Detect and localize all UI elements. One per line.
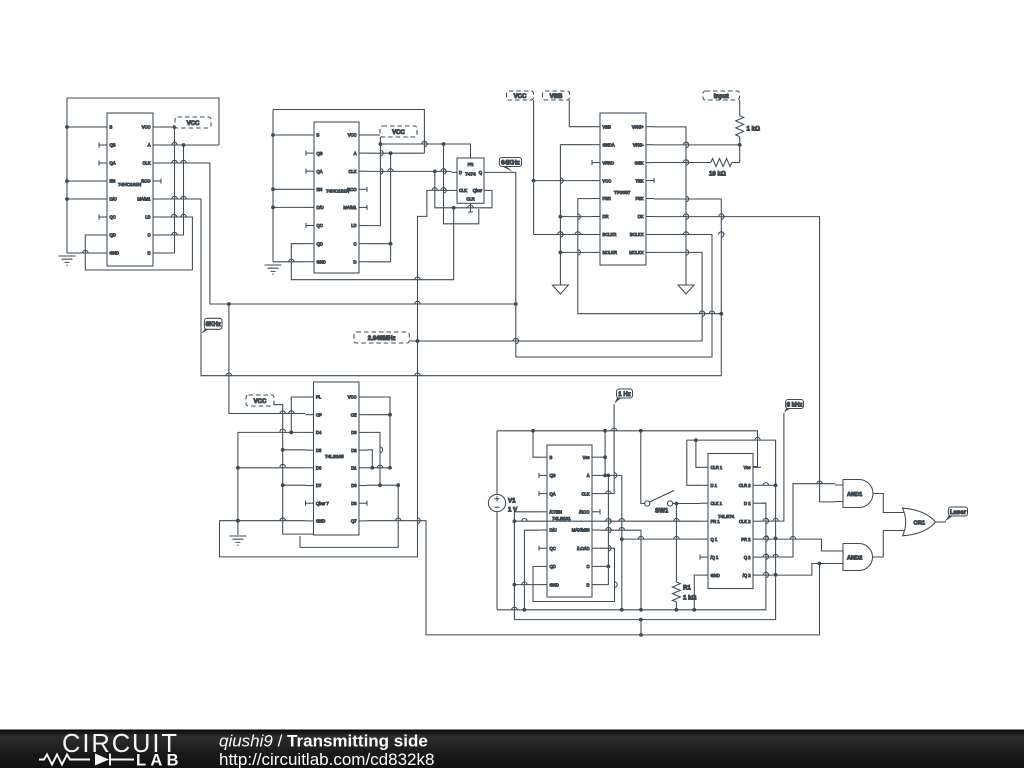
svg-text:GND: GND — [317, 259, 326, 264]
svg-text:C: C — [354, 241, 357, 246]
svg-text:GND: GND — [711, 573, 720, 578]
svg-text:Vcc: Vcc — [744, 465, 751, 470]
svg-text:CLR 2: CLR 2 — [739, 483, 751, 488]
svg-text:QD: QD — [110, 233, 116, 238]
svg-text:QB: QB — [110, 143, 116, 148]
svg-text:QA: QA — [550, 491, 556, 496]
net flag Input — [703, 91, 740, 100]
svg-text:/RCO: /RCO — [579, 510, 590, 515]
wire U7.CLK2 to 8 kHz flag — [761, 413, 784, 521]
svg-text:LD: LD — [351, 223, 356, 228]
wire U7./Q2 to AND2 lower — [761, 564, 835, 576]
wire U5.Q7 to bottom rail and AND2 riser — [367, 521, 820, 635]
svg-text:A: A — [354, 151, 357, 156]
svg-text:D7: D7 — [316, 483, 322, 488]
svg-text:PL: PL — [316, 395, 322, 400]
wire OR1 output to Laser — [936, 521, 947, 523]
svg-text:QA: QA — [110, 161, 116, 166]
svg-text:QC: QC — [550, 546, 556, 551]
svg-text:/Q 1: /Q 1 — [711, 555, 720, 560]
svg-text:BCLKR: BCLKR — [603, 232, 617, 237]
svg-text:D8: D8 — [351, 501, 357, 506]
AND gate AND2 — [843, 544, 873, 571]
svg-text:B: B — [550, 455, 553, 460]
svg-text:QB: QB — [550, 473, 556, 478]
svg-text:B: B — [110, 125, 113, 130]
svg-text:D/U: D/U — [550, 528, 557, 533]
svg-text:Qbar 7: Qbar 7 — [316, 501, 329, 506]
svg-text:QC: QC — [110, 215, 116, 220]
svg-text:DR: DR — [603, 214, 609, 219]
wire PR1 net — [514, 520, 700, 522]
wire AND2 output to OR1 — [873, 531, 908, 558]
wire U7.Q2 to AND1 upper — [761, 484, 835, 557]
ground — [59, 256, 76, 265]
wire U4.FSX down to 8KHz bus — [654, 199, 721, 376]
svg-text:B: B — [317, 133, 320, 138]
resistor R1 1k — [675, 504, 677, 583]
svg-text:GND: GND — [316, 519, 325, 524]
svg-text:CLK: CLK — [348, 169, 356, 174]
wire U3.Q to 64KHz net and BCLK — [490, 172, 713, 357]
wire U5.PL to D4 net — [291, 397, 305, 432]
svg-text:VFXI-: VFXI- — [633, 142, 644, 147]
svg-text:V1: V1 — [508, 498, 516, 505]
svg-text:D6: D6 — [316, 466, 322, 471]
wire U4.VFXI+ down to ground — [654, 127, 686, 285]
wire U6.D C up to A — [600, 475, 608, 584]
wire AND1 output to OR1 — [873, 494, 908, 513]
svg-text:D 2: D 2 — [744, 501, 751, 506]
IC U3 7474 — [457, 158, 484, 203]
wire U2 ground rail and top loop — [273, 110, 424, 262]
svg-text:LD: LD — [145, 215, 150, 220]
wire U2.GND to rail — [273, 261, 306, 263]
svg-text:D/U: D/U — [110, 197, 117, 202]
svg-text:DX: DX — [638, 214, 644, 219]
node label 8 kHz — [784, 408, 792, 413]
wire U6.C — [600, 565, 608, 567]
wire VCC tail down to U2.LD — [367, 137, 380, 226]
svg-text:CE: CE — [351, 412, 357, 417]
wire U7.D2 to rail — [761, 502, 766, 504]
ground (arrow) — [678, 285, 694, 294]
wire bottom rail 1 — [497, 503, 766, 610]
svg-text:GND: GND — [550, 582, 559, 587]
voltage source V1 — [488, 494, 505, 511]
wire U2.EN to rail — [273, 188, 306, 190]
svg-text:1 Hz: 1 Hz — [618, 391, 631, 398]
wire U6.Vcc to rail — [600, 456, 605, 458]
svg-text:Input: Input — [714, 93, 729, 100]
svg-text:VCC: VCC — [348, 395, 357, 400]
svg-text:EN: EN — [317, 187, 323, 192]
svg-text:PR: PR — [468, 162, 474, 167]
switch SW1 — [645, 501, 650, 506]
wire U7.Q1 to U6.A net — [622, 538, 700, 540]
wire U6./CTEN to low rail 2 — [514, 512, 775, 620]
wire U4.DX to AND1 — [654, 217, 835, 502]
svg-text:MAX/MIN: MAX/MIN — [572, 528, 590, 533]
wire U1.EN to rail — [67, 180, 99, 182]
wire U6.A riser to bottom rail — [600, 475, 622, 609]
wire U1.A to top loop — [161, 144, 219, 146]
net flag VCC — [175, 117, 211, 128]
net flag VCC — [246, 395, 274, 406]
svg-text:GNDA: GNDA — [603, 142, 615, 147]
wire U2.VCC to VCC flag — [367, 134, 380, 136]
svg-text:CLK: CLK — [142, 161, 150, 166]
svg-text:D 1: D 1 — [711, 483, 718, 488]
wire U1.D up to VCC net — [161, 127, 175, 253]
node label Laser — [945, 515, 955, 522]
svg-text:VCC: VCC — [514, 93, 527, 100]
svg-text:QD: QD — [550, 564, 556, 569]
svg-text:TSX: TSX — [635, 178, 643, 183]
wire U4.VCC — [534, 180, 592, 182]
wire PR net branch — [444, 144, 479, 224]
wire U5.D1 — [367, 467, 390, 469]
wire U1.C up to A net — [161, 145, 184, 235]
wire U5.D7 to vcc rail — [283, 484, 306, 486]
wire U7.D1 feedback — [687, 440, 700, 485]
wire U4.GNDA down to ground — [560, 145, 592, 285]
wire U4.MCLKR to ground net — [560, 251, 592, 253]
resistor 10 kOhm — [654, 162, 711, 164]
svg-text:Q7: Q7 — [351, 519, 357, 524]
svg-text:VCC: VCC — [254, 398, 267, 405]
wire top rail — [497, 431, 758, 467]
wire U4.VBB to VBB flag — [569, 100, 592, 127]
wire U2.B to rail — [273, 134, 306, 136]
svg-text:C: C — [587, 564, 590, 569]
wire U2.QD loop to 7474 D net — [291, 208, 453, 280]
resistor 1 kOhm — [739, 100, 741, 116]
svg-text:LAB: LAB — [136, 752, 180, 768]
svg-text:QC: QC — [317, 223, 323, 228]
wire U4.FSR down to FSX net — [578, 199, 722, 314]
svg-text:8KHz: 8KHz — [206, 321, 221, 328]
wire U3 D-Qbar feedback loop — [435, 171, 492, 207]
svg-text:VCC: VCC — [392, 129, 405, 136]
wire U5.D5 to vcc rail — [283, 449, 306, 451]
svg-text:74LS191: 74LS191 — [552, 516, 571, 521]
svg-text:VCC: VCC — [187, 120, 200, 127]
node U5 bottom loop — [396, 483, 400, 487]
svg-text:QB: QB — [317, 151, 323, 156]
svg-text:VBB: VBB — [550, 93, 563, 100]
svg-text:1 V: 1 V — [508, 507, 518, 514]
svg-text:1 kΩ: 1 kΩ — [747, 126, 760, 133]
svg-text:Qbar: Qbar — [473, 188, 483, 193]
wire U1.CLK down to 64KHz bus — [161, 163, 516, 304]
svg-text:MCLKR: MCLKR — [603, 250, 618, 255]
net flag VCC — [507, 91, 534, 100]
wire V1 top to rail — [496, 431, 498, 495]
svg-text:74LS74: 74LS74 — [718, 514, 735, 519]
svg-text:64KHz: 64KHz — [501, 159, 520, 166]
svg-text:qiushi9 / Transmitting side: qiushi9 / Transmitting side — [219, 732, 428, 751]
node label 64KHz — [500, 166, 513, 173]
wire U4.MCLKX to 2.048MHz flag — [409, 252, 702, 341]
svg-text:AND1: AND1 — [847, 492, 862, 498]
svg-text:VBB: VBB — [603, 124, 612, 129]
wire U1.B to rail — [67, 126, 99, 128]
wire U5.D3 down to D0 — [367, 432, 380, 485]
AND gate AND1 — [843, 480, 873, 508]
wire U1 ground rail and top loop — [67, 98, 219, 253]
wire VCC net to U3.PR — [380, 144, 470, 150]
wire U4.DR to ground net — [560, 216, 592, 218]
svg-text:CLK 2: CLK 2 — [739, 519, 751, 524]
svg-text:Q 2: Q 2 — [744, 555, 751, 560]
svg-text:VFRO: VFRO — [603, 160, 615, 165]
svg-text:D0: D0 — [351, 483, 357, 488]
wire U7.CLR2 — [761, 484, 776, 486]
wire rail2-rail3 link — [640, 620, 642, 635]
svg-text:2.048MHz: 2.048MHz — [368, 335, 396, 342]
wire U4.VFXI- to resistor divider — [654, 144, 740, 146]
svg-text:7474: 7474 — [465, 172, 476, 177]
svg-text:MA/M1: MA/M1 — [343, 205, 357, 210]
svg-text:BCLKX: BCLKX — [630, 232, 644, 237]
svg-text:D5: D5 — [316, 448, 322, 453]
wire U7 cross net — [687, 440, 776, 575]
IC U1 74HC191N — [107, 113, 153, 266]
svg-text:Laser: Laser — [950, 509, 967, 516]
wire SW1 left to rail — [641, 431, 645, 504]
wire rail branch — [604, 431, 606, 476]
svg-text:R1: R1 — [683, 585, 691, 592]
svg-text:MA/M1: MA/M1 — [137, 197, 151, 202]
wire 64KHz branch to U5.CP — [229, 304, 305, 414]
ground (arrow) — [552, 285, 568, 294]
wire U4.BCLKX — [654, 234, 712, 236]
wire U6.QD to /LOAD loop — [533, 548, 615, 601]
wire 1 Hz to U6.CLK — [600, 404, 614, 494]
svg-text:TP3057: TP3057 — [614, 190, 631, 195]
IC U7 74LS74 — [708, 454, 753, 589]
svg-text:74HC191N: 74HC191N — [326, 189, 349, 194]
svg-text:A: A — [587, 473, 590, 478]
wire U7.CLR1 up to clear net — [696, 440, 700, 467]
svg-text:10 kΩ: 10 kΩ — [709, 171, 726, 178]
wire U1.VCC to VCC flag — [161, 126, 175, 128]
IC U2 74HC191N — [314, 122, 359, 273]
svg-text:VCC: VCC — [603, 178, 612, 183]
svg-text:D2: D2 — [351, 448, 357, 453]
wire U5.D0 return loop — [300, 485, 398, 547]
svg-text:CLK 1: CLK 1 — [711, 501, 723, 506]
wire VCC flag to U4.VCC and BCLKR — [534, 100, 592, 235]
svg-text:CLR 1: CLR 1 — [711, 465, 723, 470]
net flag VBB — [543, 91, 570, 100]
wire SW1 right to U7.CLK1 — [673, 503, 700, 505]
svg-text:VFXI+: VFXI+ — [632, 124, 644, 129]
svg-text:Q 1: Q 1 — [711, 537, 718, 542]
wire U5 right vcc to D1 — [367, 397, 390, 468]
wire U2.D up to A net — [367, 153, 391, 262]
svg-text:8 kHz: 8 kHz — [787, 401, 803, 408]
wire U5.D6 to ground rail — [238, 467, 306, 469]
net flag VCC — [380, 126, 417, 137]
svg-text:D4: D4 — [316, 430, 322, 435]
svg-text:D: D — [459, 170, 462, 175]
svg-text:CLK: CLK — [459, 188, 467, 193]
svg-text:VCC: VCC — [348, 133, 357, 138]
svg-text:http://circuitlab.com/cd832k8: http://circuitlab.com/cd832k8 — [219, 750, 434, 768]
svg-text:D3: D3 — [351, 430, 357, 435]
net flag 2.048MHz — [354, 332, 409, 343]
wire U7.PR2 to AND2 upper — [761, 539, 835, 551]
wire U5.GND loop to 2.048MHz riser — [220, 190, 452, 557]
svg-text:D/U: D/U — [317, 205, 324, 210]
ground — [229, 536, 246, 545]
svg-text:AND2: AND2 — [847, 556, 862, 562]
svg-text:C: C — [148, 233, 151, 238]
wire U2.D/U to rail — [273, 206, 306, 208]
svg-text:OR1: OR1 — [914, 520, 926, 526]
node label 1 Hz — [614, 397, 622, 404]
IC U6 74LS191 — [547, 445, 592, 597]
svg-text:MCLKX: MCLKX — [629, 250, 644, 255]
wire U1.MA/M1 down to 8KHz bus — [161, 199, 721, 376]
svg-text:PR 2: PR 2 — [741, 537, 751, 542]
wire U2.CLK to 7474.D — [367, 170, 452, 172]
wire U1.GND to rail — [67, 252, 99, 254]
wire U6.B to rail — [533, 431, 539, 457]
svg-text:PR 1: PR 1 — [711, 519, 721, 524]
wire V1 bottom to rail — [496, 512, 498, 610]
svg-text:CP: CP — [316, 412, 322, 417]
svg-text:74LS165: 74LS165 — [325, 454, 344, 459]
wire U5.D4 to ground rail — [238, 432, 306, 535]
svg-text:D: D — [354, 259, 357, 264]
svg-text:CLK: CLK — [581, 491, 589, 496]
wire U5.D2 down to D1 — [367, 450, 372, 468]
svg-text:GND: GND — [110, 251, 119, 256]
svg-text:D: D — [148, 251, 151, 256]
svg-text:QA: QA — [317, 169, 323, 174]
wire U2.A to top loop — [367, 152, 424, 154]
svg-text:Vcc: Vcc — [583, 455, 590, 460]
wire U6.MAX/MIN to bottom rail — [600, 530, 641, 610]
wire U1.QD to U1.LD loop — [85, 217, 192, 270]
svg-text:FSR: FSR — [603, 196, 611, 201]
svg-text:/Q 2: /Q 2 — [743, 573, 752, 578]
svg-text:RCO: RCO — [141, 179, 151, 184]
svg-text:CLR: CLR — [466, 197, 474, 202]
wire U7.GND to rail — [694, 575, 700, 610]
svg-text:/LOAD: /LOAD — [577, 546, 589, 551]
svg-text:D: D — [587, 582, 590, 587]
svg-text:QD: QD — [317, 241, 323, 246]
svg-text:VCC: VCC — [142, 125, 151, 130]
svg-text:GSX: GSX — [635, 160, 644, 165]
svg-text:74HC191N: 74HC191N — [118, 182, 141, 187]
IC U4 TP3057 — [600, 113, 646, 265]
OR gate OR1 — [903, 508, 936, 536]
wire U5.CE to D1 net — [367, 414, 390, 416]
wire U1.D/U to rail — [67, 198, 99, 200]
ground — [265, 265, 282, 274]
wire U6.GND — [514, 584, 539, 586]
node label 8KHz — [201, 328, 210, 333]
svg-text:EN: EN — [110, 179, 116, 184]
IC U5 74LS165 — [314, 382, 360, 535]
svg-text:/CTEN: /CTEN — [550, 510, 562, 515]
wire U6.D/U to bottom rail — [524, 530, 539, 610]
svg-text:D1: D1 — [351, 466, 357, 471]
svg-text:A: A — [148, 143, 151, 148]
wire VCC flag to U5 left vcc rail — [274, 405, 314, 534]
wire U2.C to A net — [367, 243, 391, 245]
svg-text:SW1: SW1 — [655, 508, 669, 515]
svg-text:FSX: FSX — [635, 196, 643, 201]
